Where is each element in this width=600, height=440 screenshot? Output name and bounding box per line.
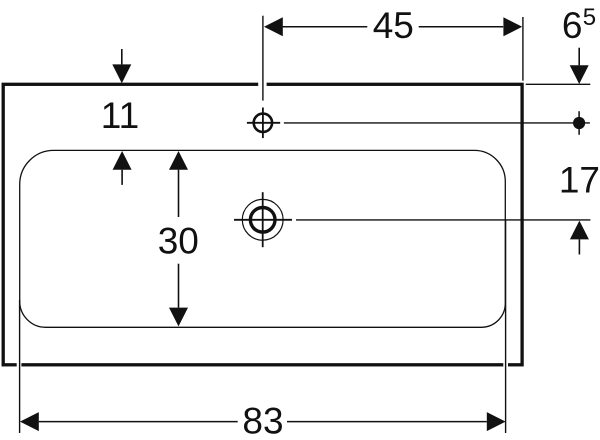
dimension 11 down arrowhead (to outer top edge) — [112, 64, 131, 83]
gap in top edge at faucet centerline — [258, 82, 266, 87]
dimension 30 up arrowhead (to inner bowl top edge) — [169, 151, 188, 170]
arrow tail 17 — [578, 239, 580, 254]
top edge extension line to the right — [526, 83, 591, 85]
svg-text:45: 45 — [373, 5, 414, 46]
faucet hole crosshair vertical — [262, 108, 264, 139]
svg-text:83: 83 — [242, 400, 283, 440]
tick through reference dot — [578, 111, 580, 135]
arrowhead 45 left — [264, 17, 283, 36]
faucet centerline to right reference — [284, 122, 590, 124]
reference dot at faucet line — [573, 117, 585, 129]
extension line 83 left — [19, 300, 21, 433]
gap in bottom edge at right extension line — [503, 362, 508, 367]
svg-text:6: 6 — [562, 5, 583, 46]
dimension line 83 — [39, 421, 487, 423]
washbasin inner bowl (rounded rectangle) — [20, 150, 506, 327]
dimension 11 up arrowhead (to inner bowl edge) — [113, 151, 132, 170]
faucet hole circle — [254, 114, 272, 132]
dimension 30 down arrowhead (to inner bowl bottom edge) — [169, 308, 188, 327]
svg-text:11: 11 — [101, 95, 139, 136]
drain crosshair vertical — [262, 192, 264, 247]
arrowhead 83 right — [487, 412, 506, 431]
extension line above faucet axis — [262, 16, 264, 101]
drain crosshair horizontal — [234, 219, 292, 221]
extension line 83 right — [505, 220, 507, 433]
drain centerline to right reference — [296, 219, 590, 221]
faucet hole crosshair horizontal — [247, 122, 280, 124]
arrowhead 45 right — [503, 17, 522, 36]
svg-text:17: 17 — [559, 159, 600, 200]
dimension 30 down arrow tail — [178, 264, 180, 308]
svg-text:30: 30 — [158, 221, 199, 262]
arrowhead 17 (up to drain centerline) — [570, 221, 589, 240]
extension line above right edge — [522, 17, 524, 81]
dimension 30 up arrow tail — [178, 170, 180, 217]
arrowhead 83 left — [20, 412, 39, 431]
dimension line 45 — [283, 26, 504, 28]
drain hole thick circle — [250, 208, 275, 233]
dimension 11 down arrow tail — [121, 49, 123, 64]
drain hole thin outer circle — [242, 199, 283, 240]
washbasin outer edge (top view, thick rectangle) — [3, 84, 522, 365]
gap in bottom edge at left extension line — [17, 362, 22, 367]
dimension 11 up arrow tail — [121, 170, 123, 185]
svg-text:5: 5 — [583, 4, 596, 31]
arrow 6.5 (down to top edge extension) — [578, 48, 580, 66]
